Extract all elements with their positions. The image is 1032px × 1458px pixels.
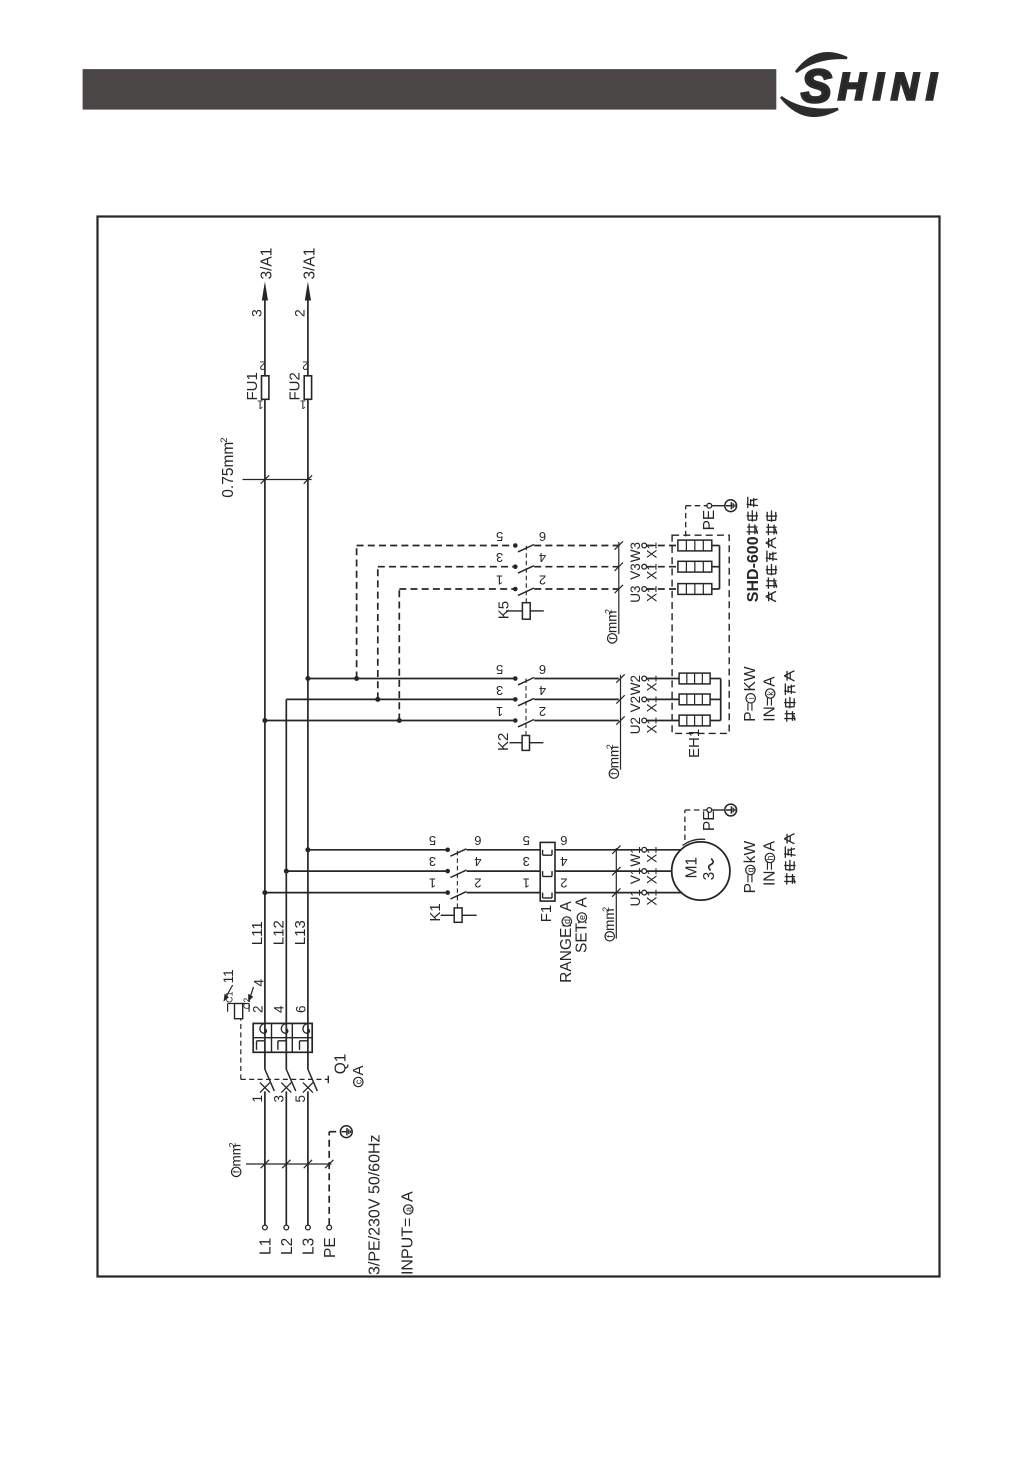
svg-text:1: 1 <box>496 573 503 588</box>
wire heater to star bar <box>712 588 720 590</box>
svg-text:1: 1 <box>429 876 436 891</box>
svg-text:W3: W3 <box>628 542 643 562</box>
fuse FU2 <box>304 376 311 400</box>
svg-text:4: 4 <box>539 550 546 565</box>
contactor K5 contact 1-2 <box>513 587 619 596</box>
value label c A (Q1) <box>354 1077 363 1086</box>
svg-text:IN=: IN= <box>761 861 778 886</box>
node K5 tap V3 <box>375 697 380 702</box>
wire K1 drop V1 <box>286 870 447 872</box>
svg-text:K2: K2 <box>495 733 512 751</box>
svg-text:1: 1 <box>257 398 263 410</box>
breaker Q1 pole 3 contact <box>303 1052 317 1092</box>
svg-text:W2: W2 <box>628 675 643 695</box>
svg-text:2: 2 <box>601 907 611 912</box>
breaker Q1 auxiliary contact C1/C2 <box>228 1004 250 1019</box>
node K5 tap U3 <box>397 718 402 723</box>
svg-text:g: g <box>746 867 756 872</box>
svg-text:2: 2 <box>539 573 546 588</box>
svg-text:U3: U3 <box>628 586 643 603</box>
terminal X1 (EH1 U2) <box>642 718 647 723</box>
svg-text:U2: U2 <box>628 717 643 734</box>
breaker Q1 trip linkage <box>241 1078 328 1080</box>
svg-text:2: 2 <box>539 704 546 719</box>
wire heater PE dashed <box>685 506 687 537</box>
contactor K2 contact 5-6 <box>513 676 619 685</box>
svg-text:3: 3 <box>496 683 503 698</box>
star bar EH1 <box>720 679 722 721</box>
svg-text:0.75mm: 0.75mm <box>220 442 237 498</box>
svg-text:4: 4 <box>560 854 567 869</box>
svg-text:1: 1 <box>523 876 530 891</box>
svg-text:M1: M1 <box>684 857 701 879</box>
wires F1 to motor terminals <box>555 892 642 894</box>
svg-text:1: 1 <box>250 1095 265 1103</box>
svg-text:X1: X1 <box>644 717 659 734</box>
wire-size marker input <box>246 1163 332 1165</box>
svg-text:3/A1: 3/A1 <box>302 248 319 280</box>
svg-text:SHD-600: SHD-600 <box>745 536 762 602</box>
svg-text:C2: C2 <box>242 998 252 1010</box>
wire PE dashed <box>328 1132 330 1225</box>
node L13 to K2 <box>305 676 310 681</box>
svg-text:HINI: HINI <box>838 67 944 109</box>
star bar K5 group <box>719 546 721 590</box>
ground (heater PE) <box>725 500 737 512</box>
svg-text:FU2: FU2 <box>287 372 304 400</box>
svg-text:A: A <box>761 840 778 851</box>
svg-text:5: 5 <box>496 662 503 677</box>
svg-text:2: 2 <box>604 609 614 614</box>
value label f mm2 (K5 branch) <box>608 634 617 643</box>
contactor K5 contact 5-6 <box>513 543 619 552</box>
wire heater to star bar <box>710 720 721 722</box>
heater element EH1-3 <box>679 673 710 684</box>
svg-text:6: 6 <box>560 833 567 848</box>
svg-text:X1: X1 <box>644 542 659 559</box>
svg-text:3: 3 <box>496 550 503 565</box>
terminal X1 (EH1 W2) <box>642 676 647 681</box>
reference arrow 4 <box>250 987 254 999</box>
svg-text:kW: kW <box>742 840 759 863</box>
svg-text:S: S <box>801 60 832 112</box>
label drying heater (Chinese) <box>786 710 788 721</box>
label models use two heater groups (Chinese) <box>766 597 776 602</box>
terminal L3 <box>306 1225 311 1230</box>
wire heater to star bar <box>710 678 721 680</box>
bus wire L11 <box>264 399 266 1023</box>
wire-size marker 0.75mm2 <box>243 479 312 481</box>
wire terminal to heater <box>647 698 680 700</box>
wire L1 input to Q1 <box>264 1091 266 1225</box>
svg-text:A: A <box>350 1065 367 1075</box>
svg-text:5: 5 <box>429 833 436 848</box>
wire heater to star bar <box>712 566 720 568</box>
ground (input PE) <box>340 1126 352 1138</box>
header bar <box>83 69 777 110</box>
wire terminal to heater dashed <box>647 566 678 568</box>
svg-text:X1: X1 <box>644 586 659 603</box>
node L11 to K1 <box>262 890 267 895</box>
svg-text:1: 1 <box>300 398 306 410</box>
svg-text:P=: P= <box>742 874 759 893</box>
value label f mm2 (K2 branch) <box>609 769 618 778</box>
terminal X1 (K5 W3) <box>642 543 647 548</box>
wire PE drop to earth <box>329 1131 340 1133</box>
svg-text:EH1: EH1 <box>686 729 703 758</box>
svg-text:FU1: FU1 <box>244 372 261 400</box>
value label f mm2 (input) <box>232 1167 241 1176</box>
svg-text:K5: K5 <box>495 601 512 619</box>
contactor K1 linkage <box>456 850 458 908</box>
node L13 to K1 <box>305 847 310 852</box>
label drying fan (Chinese) <box>786 873 788 884</box>
svg-text:6: 6 <box>293 1005 308 1013</box>
contactor K1 contact 5-6 <box>445 848 540 857</box>
svg-text:W1: W1 <box>628 846 643 866</box>
wire K5 feed W3 dashed <box>356 546 358 679</box>
svg-text:d: d <box>562 919 572 924</box>
svg-text:5: 5 <box>496 529 503 544</box>
svg-text:INPUT=: INPUT= <box>400 1218 417 1275</box>
terminal X1 (motor W1) <box>642 847 647 852</box>
terminal X1 (motor U1) <box>642 890 647 895</box>
node L12 to K1 <box>284 869 289 874</box>
svg-text:F1: F1 <box>538 905 555 923</box>
svg-text:k: k <box>766 691 776 696</box>
svg-text:KW: KW <box>742 666 759 691</box>
schematic border frame <box>98 217 940 1277</box>
terminal X1 (motor V1) <box>642 869 647 874</box>
ground (motor PE) <box>725 804 737 816</box>
svg-text:IN=: IN= <box>762 697 779 722</box>
svg-text:V1: V1 <box>628 868 643 885</box>
svg-text:L11: L11 <box>249 921 266 945</box>
wire K5 feed V3 dashed <box>377 567 379 700</box>
wire terminal to heater dashed <box>647 545 678 547</box>
svg-text:3: 3 <box>523 854 530 869</box>
svg-text:e: e <box>577 915 587 920</box>
svg-text:5: 5 <box>293 1095 308 1103</box>
svg-text:4: 4 <box>539 683 546 698</box>
node K5 tap W3 <box>354 676 359 681</box>
contactor K1 contact 1-2 <box>445 890 540 899</box>
svg-text:L12: L12 <box>271 920 288 945</box>
contactor K1 coil <box>441 908 477 922</box>
wire motor PE dashed <box>684 810 686 840</box>
heater element EH1-1 <box>679 715 710 726</box>
wire heater to star bar <box>710 698 721 700</box>
svg-text:A: A <box>400 1191 417 1202</box>
wire K1 drop W1 <box>308 849 448 851</box>
svg-text:6: 6 <box>539 662 546 677</box>
wire K2 drop W2 <box>308 678 515 680</box>
node L11 to K2 <box>262 718 267 723</box>
wire PE to ground (heater) <box>712 505 725 507</box>
svg-text:3: 3 <box>429 854 436 869</box>
svg-text:X1: X1 <box>644 563 659 580</box>
contactor K5 contact 3-4 <box>513 564 619 573</box>
contactor K2 contact 3-4 <box>513 697 619 706</box>
svg-text:X1: X1 <box>644 868 659 885</box>
heater element EH1-2 <box>679 694 710 705</box>
svg-text:L2: L2 <box>279 1238 296 1255</box>
wire K5 feed U3 dashed <box>398 589 400 721</box>
wire heater to star bar <box>712 545 720 547</box>
terminal X1 (EH1 V2) <box>642 697 647 702</box>
svg-text:a: a <box>404 1207 414 1212</box>
svg-text:2: 2 <box>250 1005 265 1013</box>
SHINI logo <box>781 53 944 115</box>
svg-text:4: 4 <box>474 854 481 869</box>
bus wire L13 <box>307 399 309 1023</box>
svg-text:U1: U1 <box>628 889 643 906</box>
terminal L1 <box>263 1225 268 1230</box>
svg-text:A: A <box>573 897 590 908</box>
breaker Q1 thermal/magnetic box <box>253 1023 312 1052</box>
svg-text:SET:: SET: <box>573 920 590 953</box>
svg-text:i: i <box>746 697 756 699</box>
svg-text:L3: L3 <box>301 1238 318 1255</box>
svg-text:h: h <box>765 855 775 860</box>
svg-text:6: 6 <box>539 529 546 544</box>
terminal X1 (K5 V3) <box>642 564 647 569</box>
svg-text:3: 3 <box>271 1095 286 1103</box>
wire PE to ground (motor) <box>712 809 725 811</box>
heater element group2-3 <box>678 540 712 551</box>
wire L3 input to Q1 <box>307 1091 309 1225</box>
svg-text:V3: V3 <box>628 563 643 580</box>
terminal X1 (K5 U3) <box>642 587 647 592</box>
svg-text:C1: C1 <box>224 991 234 1003</box>
wire L2 input to Q1 <box>285 1091 287 1225</box>
svg-text:K1: K1 <box>427 903 444 921</box>
svg-text:2: 2 <box>605 744 615 749</box>
svg-text:5: 5 <box>523 833 530 848</box>
svg-text:X1: X1 <box>644 675 659 692</box>
svg-text:Q1: Q1 <box>332 1054 349 1075</box>
terminal PE (motor) <box>707 808 712 813</box>
wire 2 to sheet 3/A1 <box>307 300 309 376</box>
motor PE takeoff arc <box>683 839 706 845</box>
svg-text:X1: X1 <box>644 889 659 906</box>
breaker Q1 pole 1 contact <box>260 1052 274 1092</box>
heater group dashed enclosure EH1 <box>672 535 729 733</box>
wires terminals to motor <box>647 892 683 894</box>
bus wire L12 <box>285 699 287 1023</box>
contactor K2 linkage <box>525 679 527 736</box>
svg-text:X1: X1 <box>644 696 659 713</box>
svg-text:L13: L13 <box>292 920 309 945</box>
svg-text:3: 3 <box>701 872 718 881</box>
svg-text:3/A1: 3/A1 <box>259 248 276 280</box>
svg-text:2: 2 <box>474 876 481 891</box>
overload F1 body <box>540 842 555 901</box>
svg-text:2: 2 <box>292 309 308 317</box>
contactor K1 contact 3-4 <box>445 869 540 878</box>
svg-text:3/PE/230V 50/60Hz: 3/PE/230V 50/60Hz <box>367 1134 384 1275</box>
svg-text:2: 2 <box>219 437 230 442</box>
contactor K2 coil <box>510 736 544 751</box>
svg-text:2: 2 <box>560 876 567 891</box>
value label f mm2 (K1 branch) <box>605 932 614 941</box>
heater element group2-1 <box>678 584 712 595</box>
svg-text:6: 6 <box>474 833 481 848</box>
svg-text:P=: P= <box>742 702 759 721</box>
wire K2 drop U2 <box>265 720 515 722</box>
wire 3 to sheet 3/A1 <box>264 300 266 376</box>
svg-text:X1: X1 <box>644 846 659 863</box>
terminal PE (heater) <box>707 503 712 508</box>
fuse FU1 <box>262 376 269 400</box>
wire-size marker K2 branch <box>620 675 622 770</box>
svg-text:11: 11 <box>221 969 236 983</box>
terminal L2 <box>284 1225 289 1230</box>
breaker Q1 pole 2 contact <box>281 1052 295 1092</box>
contactor K5 linkage <box>525 546 527 603</box>
svg-text:A: A <box>762 676 779 687</box>
svg-text:2: 2 <box>228 1142 238 1147</box>
svg-text:PE: PE <box>701 810 718 831</box>
svg-text:1: 1 <box>496 704 503 719</box>
svg-text:4: 4 <box>272 1005 287 1013</box>
wire K2 drop V2 (L12 corner) <box>286 698 515 700</box>
svg-text:PE: PE <box>322 1237 339 1258</box>
svg-text:c: c <box>354 1079 364 1084</box>
wire-size marker K1 branch <box>615 848 617 939</box>
contactor K5 coil <box>506 603 544 620</box>
heater element group2-2 <box>678 561 712 572</box>
wire-size marker K5 branch <box>618 542 620 634</box>
wire terminal to heater <box>647 720 680 722</box>
svg-text:L1: L1 <box>258 1238 275 1255</box>
motor M1 <box>672 842 730 900</box>
svg-text:V2: V2 <box>628 696 643 713</box>
reference arrow 11 <box>225 985 232 999</box>
contactor K2 contact 1-2 <box>513 718 619 727</box>
terminal PE <box>327 1225 332 1230</box>
wire K1 drop U1 <box>265 892 448 894</box>
svg-text:PE: PE <box>701 510 718 531</box>
wire terminal to heater <box>647 678 680 680</box>
wire terminal to heater dashed <box>647 588 678 590</box>
svg-text:3: 3 <box>249 309 265 317</box>
